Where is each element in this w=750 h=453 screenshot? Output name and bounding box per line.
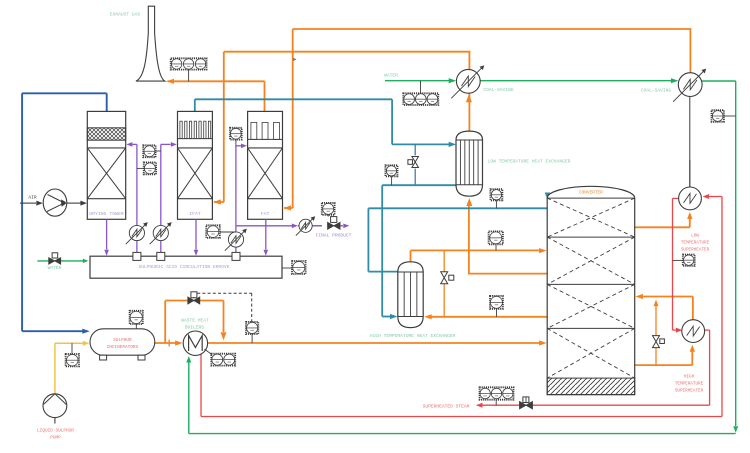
wire: red superheated steam product line	[476, 330, 710, 408]
wire: black stub above LT superheater	[689, 160, 691, 172]
svg-text:TEMPERATURE: TEMPERATURE	[675, 381, 704, 386]
svg-text:SUPERHEATED STEAM: SUPERHEATED STEAM	[423, 403, 470, 409]
svg-text:SUPERHEATER: SUPERHEATER	[675, 388, 704, 393]
wire: purple IFAT acid downcomer	[194, 219, 199, 256]
economizer 2 (coal-saving)	[673, 69, 706, 102]
acid cooler 2	[150, 222, 172, 244]
svg-text:AIR: AIR	[28, 195, 37, 201]
svg-text:FINAL PRODUCT: FINAL PRODUCT	[316, 232, 352, 238]
svg-text:HIGH TEMPERATURE HEAT EXCHANGE: HIGH TEMPERATURE HEAT EXCHANGER	[370, 333, 456, 339]
vessel: drying tower	[87, 111, 125, 219]
instrument on riser 2	[143, 145, 161, 157]
instrument on converter teal inlet line	[490, 189, 502, 208]
vessel: high temperature heat exchanger	[398, 262, 423, 328]
vessel: converter	[547, 186, 635, 394]
svg-text:WASTE HEAT: WASTE HEAT	[181, 317, 209, 323]
svg-text:LIQUID SULPHUR: LIQUID SULPHUR	[37, 429, 74, 434]
instrument on bed3-out orange line	[490, 296, 503, 317]
svg-text:PUMP: PUMP	[50, 436, 61, 441]
instrument cluster at WHB	[205, 349, 236, 366]
svg-text:DRYING TOWER: DRYING TOWER	[89, 211, 124, 217]
instrument on red LT superheater line	[673, 255, 695, 266]
svg-text:IFAT: IFAT	[189, 211, 201, 217]
wire: purple acid riser 3 to FAT tower	[236, 144, 247, 253]
economizer 1 (coal-saving)	[451, 65, 484, 98]
wire: black economizer2 to LT superheater	[689, 97, 691, 188]
svg-text:INCINERATORS: INCINERATORS	[107, 345, 139, 350]
svg-text:TEMPERATURE: TEMPERATURE	[681, 241, 710, 246]
wire: purple final product line from riser 3	[236, 224, 349, 229]
wire: purple acid riser 1 to drying tower	[126, 142, 136, 252]
stack (exhaust chimney)	[136, 6, 165, 81]
valve on WHB bypass	[188, 292, 200, 304]
svg-text:LOW: LOW	[691, 234, 699, 239]
svg-text:EXHAUST GAS: EXHAUST GAS	[110, 12, 141, 18]
waste heat boiler	[183, 331, 207, 355]
wire: orange HT superheater top to converter bed3-in with bypass	[635, 294, 693, 365]
vessel: sulphuric acid circulation groove	[90, 256, 282, 278]
wire: red LT superheater to HT superheater	[673, 198, 683, 332]
valve on superheated steam line	[520, 397, 533, 409]
low temperature superheater	[679, 172, 702, 210]
acid cooler 1	[126, 222, 148, 244]
high temperature superheater	[682, 320, 705, 343]
svg-text:SUPERHEATER: SUPERHEATER	[681, 248, 710, 253]
wire: orange line economizer2 top to FAT tower	[284, 29, 692, 211]
wire: orange WHB bypass with valve	[165, 301, 226, 344]
vessel: low temperature heat exchanger	[456, 131, 483, 196]
wire: orange exhaust line from FAT tower top to stack	[167, 79, 265, 112]
svg-text:CONVERTER: CONVERTER	[579, 191, 603, 196]
instrument on sulphur feed	[66, 343, 79, 366]
tank nozzle square 2	[157, 252, 165, 260]
tank nozzle square 3	[232, 252, 240, 260]
instrument near LTHX teal outlet	[385, 165, 397, 185]
wire: purple acid riser 2 to IFAT tower	[161, 142, 177, 252]
wire: teal LTHX bypass branch with valve	[414, 144, 416, 185]
dashed control line from bypass valve to instrument	[197, 293, 258, 343]
wire: orange WHB outlet main to converter bed4-in	[208, 340, 547, 345]
svg-text:WATER: WATER	[48, 265, 62, 271]
instrument on incinerator top	[130, 311, 143, 329]
control valve on product line	[322, 203, 340, 229]
wire: red saturated steam WHB drum to LT superheater	[201, 194, 722, 417]
wire: teal IFAT tower top to LTHX inlet	[195, 99, 456, 147]
vessel: FAT absorption tower	[248, 111, 283, 219]
wire: teal HTHX outlet to converter inlet	[368, 193, 550, 272]
wire: orange line economizer1 top to IFAT tower	[213, 52, 470, 205]
svg-text:FAT: FAT	[261, 211, 270, 217]
vessel: IFAT absorption tower	[178, 111, 213, 219]
wire: teal LTHX outlet to HTHX inlet	[382, 185, 456, 319]
wire: orange converter bed2-out to LTHX bottom	[466, 198, 547, 275]
instrument beside acid cooler 3	[206, 225, 236, 238]
svg-text:LOW TEMPERATURE HEAT EXCHANGER: LOW TEMPERATURE HEAT EXCHANGER	[488, 159, 571, 165]
instrument at tank right	[282, 261, 306, 274]
instrument on bed2-in orange line	[489, 231, 503, 250]
valve on HTHX gas bypass	[441, 272, 454, 284]
svg-text:SULPHURIC ACID CIRCULATION GRO: SULPHURIC ACID CIRCULATION GROOVE	[139, 264, 230, 270]
wire: orange LTHX top to economizer1 bottom	[466, 92, 472, 131]
instrument cluster on steam line	[480, 387, 514, 405]
instrument on riser 1	[137, 162, 156, 174]
wire: green water feed to circulation groove with valve	[37, 259, 88, 264]
product cooler	[296, 216, 315, 235]
svg-text:HIGH: HIGH	[684, 374, 695, 379]
wire: purple FAT acid downcomer	[264, 219, 269, 256]
wire: orange converter bed3-out to HTHX bottom	[424, 314, 547, 319]
wire: green boiler feed water main through economizers	[186, 78, 738, 434]
svg-text:COAL-SAVING: COAL-SAVING	[641, 88, 672, 94]
wire: orange HTHX top riser to converter bed2-in with bypass valve	[411, 248, 547, 317]
pump: liquid sulphur pump	[43, 394, 67, 424]
wire: yellow liquid sulphur feed	[55, 341, 89, 394]
wire: orange incinerator outlet to WHB	[155, 340, 183, 347]
svg-text:SULPHUR: SULPHUR	[113, 338, 132, 343]
instrument on riser 3	[230, 128, 242, 146]
air blower	[20, 189, 87, 216]
wire: orange converter bed1-out to low-temp superheater bottom	[635, 212, 693, 227]
svg-text:COAL-SAVING: COAL-SAVING	[483, 87, 514, 93]
valve on HT superheater bypass	[653, 336, 665, 348]
svg-text:WATER: WATER	[384, 73, 398, 79]
svg-text:BOILERS: BOILERS	[185, 325, 205, 331]
wire: blue drying-tower top to sulphur incinerator	[22, 93, 107, 333]
junction tick on orange riser	[293, 58, 296, 61]
valve on LTHX teal bypass	[408, 157, 419, 168]
tank nozzle square 1	[133, 252, 141, 260]
instrument on green downcomer	[712, 110, 736, 122]
wire: purple drying tower acid downcomer	[104, 219, 109, 256]
valve on water feed	[49, 253, 61, 264]
acid cooler 3	[225, 229, 247, 251]
instrument cluster below water line	[403, 81, 438, 105]
vessel: sulphur incinerators	[90, 329, 155, 360]
instrument cluster on exhaust line	[171, 58, 207, 81]
wire: orange converter bed4-out to HT superheater bottom	[635, 345, 695, 365]
